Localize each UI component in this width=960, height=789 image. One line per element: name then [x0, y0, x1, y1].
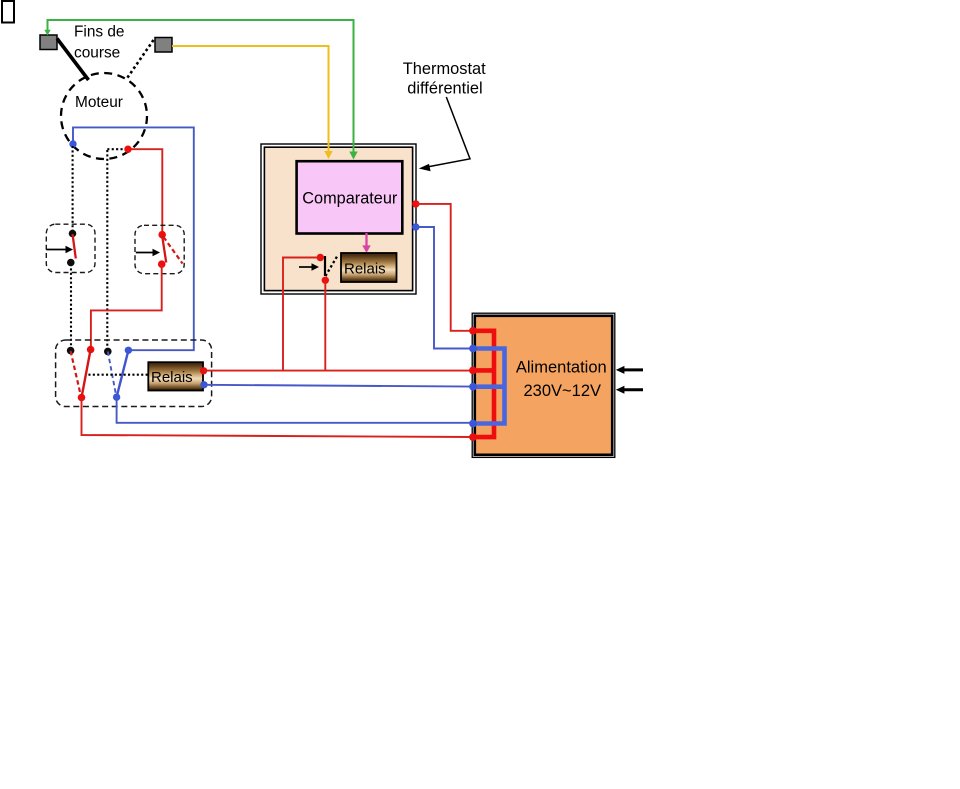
limit switch 2 (gray square) [155, 38, 172, 53]
thermostat switch contact [317, 254, 337, 284]
wire dotted middle control line [107, 149, 124, 348]
relay K2 (thermostat relay box) [341, 253, 397, 282]
node thermostat blue output [412, 223, 419, 230]
wire blue thermostat to alimentation [416, 227, 473, 349]
mains input arrow 1 [616, 366, 643, 374]
wire red relay contact to alimentation (bottom) [82, 398, 474, 438]
label Thermostat differentiel [403, 60, 486, 98]
svg-text:course: course [74, 45, 120, 62]
switch S2 box [135, 225, 184, 273]
limit switch 1 (gray square) [40, 35, 57, 50]
thermostat box outer [261, 144, 416, 294]
actuator rod solid [57, 39, 89, 81]
wire blue relay K1 to alimentation [204, 385, 473, 387]
wire dotted relay coil link [88, 374, 148, 376]
mains input arrow 2 [616, 386, 643, 394]
switch S1 contacts [67, 230, 76, 267]
thermostat box inner [264, 147, 412, 290]
alimentation thick blue loop [473, 349, 505, 424]
wire red motor to switch 2 [128, 149, 162, 231]
svg-text:230V~12V: 230V~12V [524, 382, 602, 400]
node thermostat red output [412, 200, 419, 207]
actuator rod dotted [127, 40, 154, 79]
svg-text:Moteur: Moteur [75, 94, 123, 111]
relay K1 (coil box) [148, 362, 203, 390]
switch S1 box [46, 224, 95, 272]
node relay K1 red terminal [200, 367, 207, 374]
motor M (dashed circle) [61, 73, 147, 159]
wire red relay K1 to alimentation [204, 370, 473, 372]
wire red thermostat switch bottom to bus [324, 281, 326, 371]
switch S1 arrow [46, 246, 73, 254]
svg-text:Fins de: Fins de [74, 24, 124, 41]
comparator box [297, 161, 403, 233]
switch S2 contacts [158, 231, 183, 268]
svg-text:Relais: Relais [344, 261, 386, 278]
wire red switch2 to relay box [91, 265, 162, 346]
label Fins de course [74, 24, 124, 62]
relay contact red pole [67, 346, 95, 402]
alimentation thick red loop [473, 331, 494, 437]
node motor blue terminal [69, 140, 76, 147]
label Alimentation 230V~12V [516, 359, 607, 401]
wire yellow from limit switch 2 to comparator [172, 46, 333, 159]
node alimentation terminals [469, 327, 477, 441]
svg-text:différentiel: différentiel [407, 80, 482, 98]
node relay K1 blue terminal [200, 381, 207, 388]
thermostat switch arrow [299, 263, 319, 271]
alimentation box inner [475, 316, 612, 455]
pointer arrow to thermostat box [419, 97, 470, 171]
svg-text:Alimentation: Alimentation [516, 359, 607, 377]
wire green from limit switch 1 to comparator [44, 20, 357, 160]
svg-text:Thermostat: Thermostat [403, 60, 486, 78]
relay contact blue pole [104, 347, 132, 401]
svg-text:Relais: Relais [151, 369, 193, 386]
wire dotted left control line [71, 146, 73, 349]
relay contact box (dashed) [56, 340, 212, 407]
wire red thermostat switch top to bus [283, 258, 320, 371]
node motor red terminal [124, 146, 131, 153]
alimentation box outer [472, 313, 615, 457]
svg-text:Comparateur: Comparateur [302, 190, 398, 208]
wire blue relay contact to alimentation (bottom) [117, 397, 473, 423]
placeholder glyph box [2, 1, 14, 23]
wire blue motor to relay contact box [73, 127, 194, 350]
wire red thermostat to alimentation [416, 204, 473, 331]
switch S2 arrow [136, 249, 160, 257]
magenta arrow comparator to relay [362, 233, 370, 253]
